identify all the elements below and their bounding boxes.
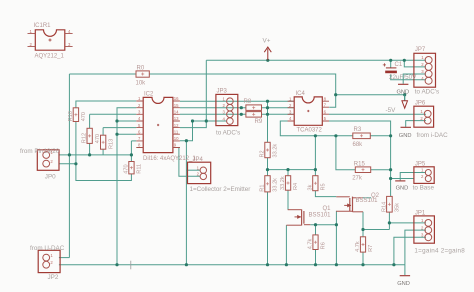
svg-text:R15: R15 bbox=[354, 161, 366, 167]
svg-text:IC2: IC2 bbox=[144, 92, 154, 98]
svg-text:22uF/50V: 22uF/50V bbox=[389, 74, 417, 81]
svg-text:from i-DAC: from i-DAC bbox=[417, 132, 449, 139]
svg-text:16: 16 bbox=[174, 96, 179, 101]
svg-text:10: 10 bbox=[174, 136, 179, 141]
svg-text:GND: GND bbox=[397, 281, 410, 287]
svg-text:to ADC's: to ADC's bbox=[415, 89, 439, 96]
svg-text:10k: 10k bbox=[136, 81, 147, 87]
svg-text:R7: R7 bbox=[368, 245, 374, 252]
svg-text:from U-DAC: from U-DAC bbox=[30, 245, 65, 252]
svg-text:470: 470 bbox=[81, 112, 87, 121]
svg-text:1=gain4 2=gain8: 1=gain4 2=gain8 bbox=[414, 248, 465, 255]
svg-text:4.7k: 4.7k bbox=[355, 241, 361, 252]
svg-text:3k: 3k bbox=[307, 184, 313, 190]
svg-text:14: 14 bbox=[174, 110, 179, 115]
svg-text:R3: R3 bbox=[354, 127, 362, 133]
svg-text:33.2k: 33.2k bbox=[273, 144, 279, 158]
svg-text:R0: R0 bbox=[137, 65, 145, 71]
svg-text:JP4: JP4 bbox=[193, 157, 204, 163]
svg-text:27k: 27k bbox=[352, 176, 363, 182]
svg-text:R8: R8 bbox=[244, 99, 252, 105]
svg-text:11: 11 bbox=[174, 129, 179, 134]
svg-text:IC4: IC4 bbox=[296, 91, 306, 97]
svg-text:33.2k: 33.2k bbox=[280, 176, 286, 190]
svg-text:R10: R10 bbox=[68, 111, 74, 121]
svg-text:R12: R12 bbox=[82, 133, 88, 143]
svg-text:TCA0372: TCA0372 bbox=[297, 128, 323, 134]
svg-text:JP5: JP5 bbox=[415, 162, 426, 168]
svg-text:JP3: JP3 bbox=[217, 88, 228, 94]
svg-text:13: 13 bbox=[174, 116, 179, 121]
svg-text:to Base: to Base bbox=[413, 184, 435, 191]
svg-text:GND: GND bbox=[399, 133, 412, 139]
svg-text:Dil16: 4xAQY212_1: Dil16: 4xAQY212_1 bbox=[143, 156, 196, 162]
svg-text:C1: C1 bbox=[395, 62, 403, 68]
svg-text:JP0: JP0 bbox=[45, 174, 56, 181]
svg-text:BSS101: BSS101 bbox=[309, 212, 332, 218]
svg-text:JP6: JP6 bbox=[415, 101, 426, 107]
svg-text:R6: R6 bbox=[321, 242, 327, 249]
svg-text:15: 15 bbox=[174, 103, 179, 108]
svg-text:R13: R13 bbox=[108, 139, 114, 149]
svg-text:R2: R2 bbox=[260, 150, 266, 157]
svg-text:JP1: JP1 bbox=[415, 211, 426, 217]
svg-text:33.2k: 33.2k bbox=[273, 178, 279, 192]
svg-text:35k: 35k bbox=[394, 203, 400, 212]
svg-text:68k: 68k bbox=[353, 142, 364, 148]
svg-text:R14: R14 bbox=[381, 202, 387, 212]
svg-text:JP2: JP2 bbox=[48, 274, 59, 281]
svg-text:4.7k: 4.7k bbox=[308, 239, 314, 250]
svg-text:Q1: Q1 bbox=[323, 206, 332, 212]
svg-text:12: 12 bbox=[174, 123, 179, 128]
svg-text:to ADC's: to ADC's bbox=[216, 129, 240, 136]
svg-text:JP7: JP7 bbox=[415, 47, 426, 53]
svg-text:R4: R4 bbox=[293, 183, 299, 190]
svg-text:R11: R11 bbox=[137, 164, 143, 174]
svg-text:V+: V+ bbox=[263, 38, 271, 45]
svg-text:-5V: -5V bbox=[386, 107, 397, 114]
svg-text:R1: R1 bbox=[260, 185, 266, 192]
svg-text:from Pin19/20: from Pin19/20 bbox=[20, 148, 60, 155]
svg-text:IC1R1: IC1R1 bbox=[34, 23, 52, 29]
svg-text:R9: R9 bbox=[255, 119, 263, 125]
svg-text:470: 470 bbox=[124, 164, 130, 173]
svg-text:1=Collector 2=Emitter: 1=Collector 2=Emitter bbox=[190, 186, 251, 193]
svg-text:R5: R5 bbox=[321, 183, 327, 190]
svg-text:BSS101: BSS101 bbox=[356, 198, 379, 204]
svg-text:470: 470 bbox=[95, 134, 101, 143]
svg-text:AQY212_1: AQY212_1 bbox=[35, 54, 65, 60]
svg-text:GND: GND bbox=[397, 89, 410, 95]
svg-text:GND: GND bbox=[396, 185, 409, 191]
